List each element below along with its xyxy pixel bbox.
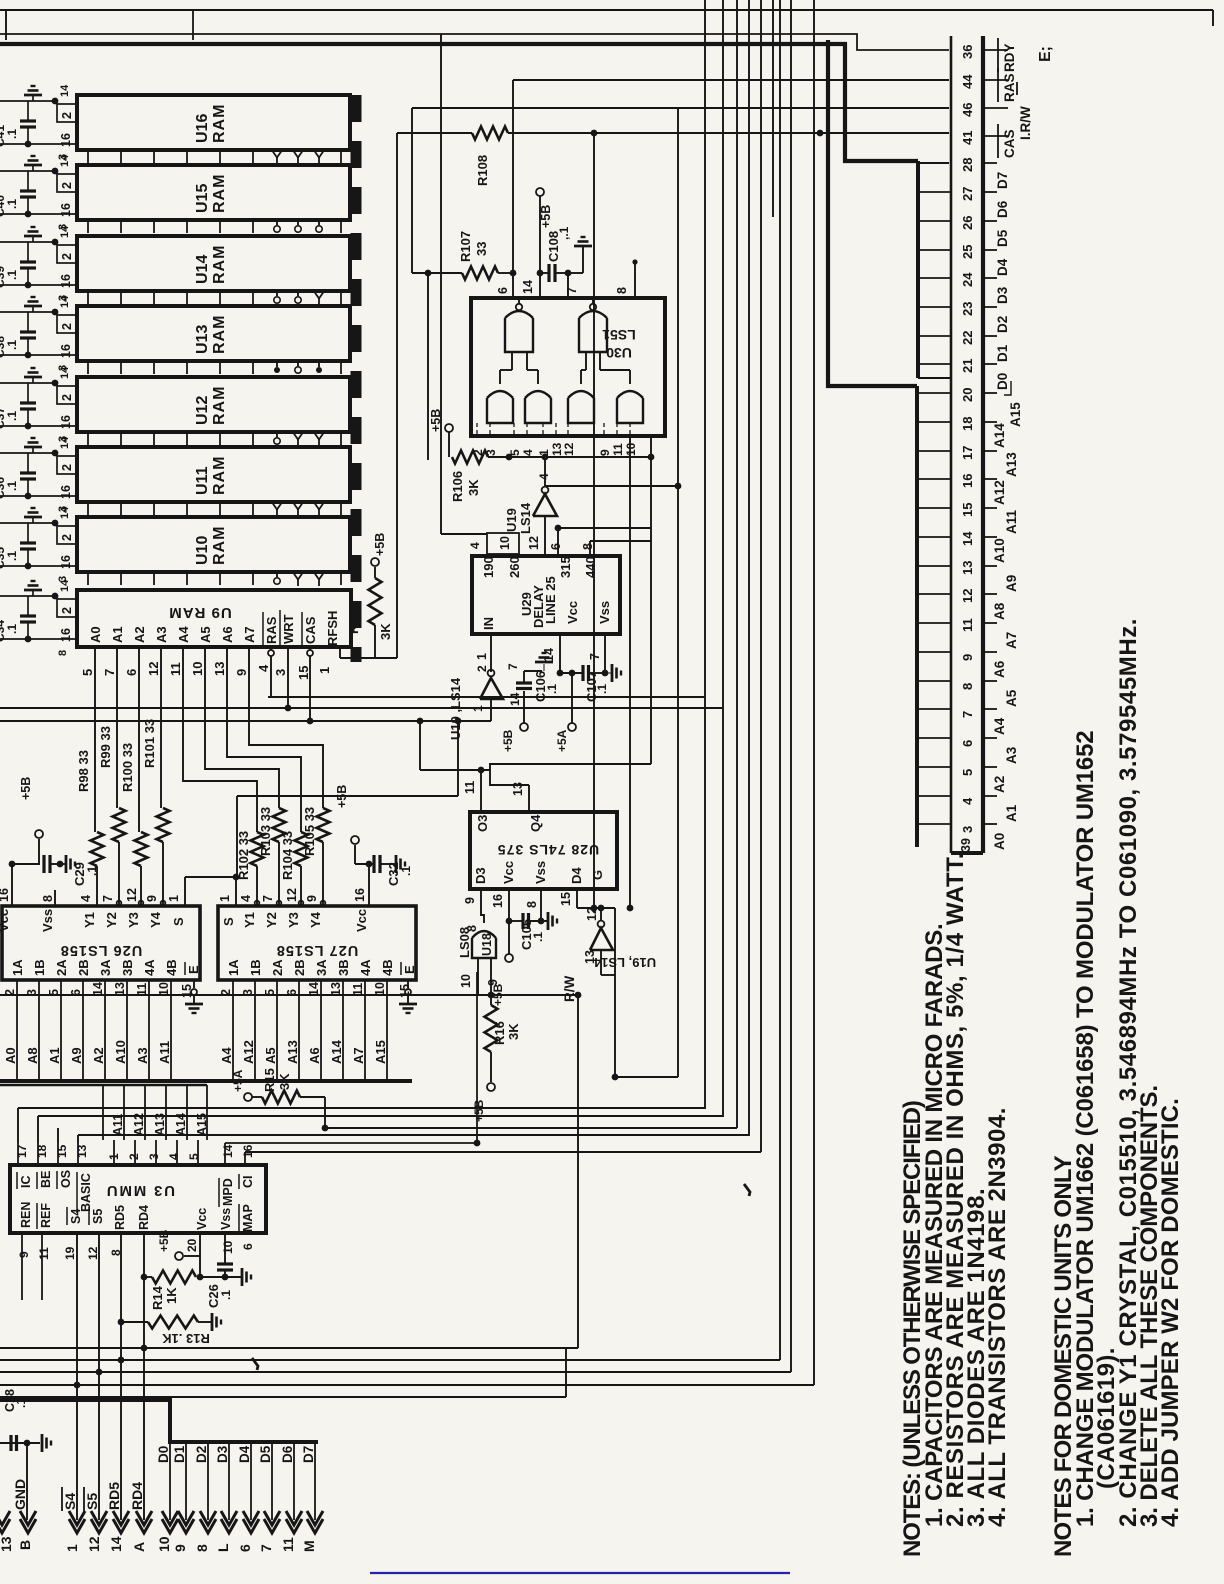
svg-text:3B: 3B	[336, 959, 351, 976]
U28 D4 pin 15 wire	[559, 889, 615, 908]
svg-text:14: 14	[59, 579, 71, 592]
svg-text:R108: R108	[475, 155, 490, 186]
connector pin 25 D4	[960, 245, 1010, 276]
svg-text:U16: U16	[194, 114, 211, 143]
svg-text:14: 14	[59, 295, 71, 308]
svg-text:9: 9	[145, 895, 159, 902]
svg-text:11: 11	[463, 781, 477, 794]
wire A13 into bus	[285, 980, 300, 1079]
svg-text:D0: D0	[995, 373, 1010, 390]
connector pin 20 A15	[960, 381, 1023, 427]
wire D-bus thick top	[0, 44, 918, 161]
address bus thick under U26 U27	[0, 1079, 412, 1083]
svg-text:U18: U18	[480, 933, 494, 956]
wire S4 flag	[62, 1233, 78, 1520]
latch U28 74LS375	[470, 812, 617, 889]
svg-text:Vcc: Vcc	[195, 1208, 209, 1230]
wire A12 into bus	[241, 980, 256, 1079]
U30 AND gate C	[568, 352, 594, 423]
note text: 1. CHANGE MODULATOR UM1662	[1072, 731, 1099, 1527]
svg-text:LS08: LS08	[457, 927, 472, 958]
svg-text:11: 11	[135, 983, 149, 996]
svg-text:10: 10	[156, 1536, 172, 1552]
svg-text:14: 14	[59, 225, 71, 238]
svg-text:2: 2	[127, 1153, 141, 1160]
U29 pin 12 wire	[527, 522, 545, 556]
svg-text:D3: D3	[995, 286, 1010, 304]
wire RD5 flag	[106, 1233, 122, 1520]
pin ticks under U10	[88, 573, 341, 586]
blue underline artifact	[370, 1572, 790, 1574]
svg-text:8: 8	[194, 1544, 210, 1552]
expansion connector rails	[951, 36, 983, 853]
svg-text:D0: D0	[156, 1446, 171, 1463]
svg-text:16: 16	[59, 344, 73, 358]
svg-text:4: 4	[256, 664, 271, 672]
svg-text:+5A: +5A	[231, 1069, 245, 1092]
capacitor C39 bypass for U14	[0, 225, 77, 301]
svg-text:U10: U10	[194, 536, 211, 565]
svg-text:1B: 1B	[32, 959, 47, 976]
wire S5 long line	[0, 0, 791, 1375]
U28 pin 11 wire O3	[417, 718, 490, 812]
pin ticks under U14	[88, 292, 341, 305]
wire D0 from bus	[156, 1442, 171, 1520]
svg-text:12: 12	[527, 536, 541, 550]
inverter U19 LS14 pin 1-2	[448, 665, 503, 740]
svg-text:440: 440	[583, 556, 598, 578]
svg-text:16: 16	[0, 888, 11, 902]
svg-text:L: L	[215, 1543, 231, 1552]
svg-text:D2: D2	[995, 316, 1010, 333]
RAM U11	[77, 447, 350, 502]
inverter U19 LS14 pin 3-4	[504, 457, 557, 534]
wire A14 into bus	[329, 980, 344, 1079]
connector pin 4 A1	[960, 796, 1019, 822]
svg-text:R98 33: R98 33	[76, 750, 91, 792]
svg-text:14: 14	[960, 531, 975, 546]
svg-text:3: 3	[273, 669, 288, 676]
svg-text:2A: 2A	[54, 959, 69, 976]
connector pin 24 D3	[960, 272, 1010, 304]
svg-text:O3: O3	[475, 815, 490, 832]
note text: (CA061619).	[1093, 1347, 1120, 1489]
bus wire v1	[18, 0, 705, 1143]
svg-text:16: 16	[59, 203, 73, 217]
svg-text:S5: S5	[84, 1493, 100, 1510]
svg-text:Vss: Vss	[219, 1208, 233, 1230]
svg-text:41: 41	[960, 131, 975, 145]
svg-text:R99 33: R99 33	[98, 726, 113, 768]
U29 tap box pin 4 10	[441, 34, 519, 556]
U26 pin numbers bottom	[3, 982, 194, 998]
svg-text:R/W: R/W	[562, 976, 577, 1003]
svg-text:GND: GND	[12, 1479, 28, 1510]
svg-text:Y4: Y4	[148, 911, 163, 928]
wire CAS to latch enable vertical	[591, 133, 598, 911]
RAM U13	[77, 306, 350, 361]
wire U18 pin10 to MPD line	[225, 972, 480, 1146]
wire A3 U9 to R101	[160, 647, 162, 808]
resistor R98 33	[76, 750, 104, 906]
svg-text:7: 7	[588, 653, 602, 660]
svg-text:16: 16	[353, 888, 367, 902]
svg-text:D7: D7	[995, 172, 1010, 189]
U30 pin numbers bottom	[471, 442, 638, 456]
svg-text:1: 1	[475, 653, 489, 660]
svg-text:RAS: RAS	[264, 616, 279, 644]
note text: NOTES FOR DOMESTIC UNITS ONL	[1050, 1155, 1077, 1557]
resistor R15 3K	[231, 1068, 328, 1131]
flag 13 cut at edge	[0, 1511, 14, 1552]
U30 pin14 Vcc wire	[536, 188, 553, 298]
svg-text:LINE 25: LINE 25	[543, 576, 558, 624]
svg-text:2: 2	[60, 323, 74, 330]
svg-text:B: B	[17, 1540, 33, 1550]
wire A0 U9 to R98	[94, 647, 96, 832]
svg-text:D6: D6	[280, 1445, 295, 1463]
connector pin 23 D2	[960, 302, 1010, 333]
svg-text:14: 14	[508, 692, 522, 706]
wire A2 into bus	[91, 980, 106, 1079]
RAM U9	[77, 590, 351, 647]
svg-text:10: 10	[624, 442, 638, 456]
svg-text:7: 7	[506, 663, 520, 670]
svg-text:I.R/W: I.R/W	[1018, 106, 1033, 140]
bus wire v3	[58, 0, 737, 1143]
svg-text:4A: 4A	[142, 959, 157, 976]
note text: 4. ADD JUMPER W2 FOR DOMES	[1157, 1098, 1184, 1527]
svg-text:A3: A3	[154, 626, 169, 643]
svg-text:Y4: Y4	[308, 911, 323, 928]
svg-text:Vss: Vss	[533, 861, 548, 884]
wire A6 staircase to R104	[227, 647, 301, 832]
svg-text:1: 1	[317, 667, 332, 674]
U30 input dashes	[477, 423, 630, 436]
wire D1 from bus	[172, 1442, 187, 1520]
svg-text:27: 27	[960, 187, 975, 201]
capacitor C35 bypass for U10	[0, 506, 77, 582]
wire RAS row	[268, 647, 705, 697]
svg-text:3K: 3K	[466, 479, 481, 496]
svg-text:1: 1	[167, 895, 181, 902]
svg-text:A2: A2	[992, 776, 1007, 793]
svg-text:C38: C38	[0, 336, 7, 358]
svg-text:24: 24	[960, 272, 975, 287]
svg-text:2B: 2B	[76, 959, 91, 976]
svg-text:1: 1	[218, 895, 232, 902]
svg-text:16: 16	[491, 894, 505, 908]
svg-text:21: 21	[960, 359, 975, 373]
svg-text:C40: C40	[0, 195, 7, 217]
svg-text:5: 5	[80, 669, 95, 676]
U29 pin 1 wire	[475, 634, 491, 672]
svg-text:13: 13	[329, 982, 343, 996]
svg-text:11: 11	[611, 443, 625, 456]
svg-text:6: 6	[124, 669, 139, 676]
U30 AND gate D	[600, 352, 643, 423]
wire A10 into bus	[113, 980, 128, 1079]
U27 pin numbers bottom	[219, 982, 412, 998]
svg-text:9: 9	[960, 654, 975, 661]
wire A0 into bus	[3, 980, 18, 1079]
connector pin 11 A7	[960, 618, 1019, 649]
AND gate U18 LS08	[457, 889, 500, 996]
svg-text:11: 11	[960, 618, 975, 632]
svg-text:14: 14	[59, 506, 71, 519]
wire A7 into bus	[351, 980, 366, 1079]
multiplexer U27 internal top labels	[221, 909, 369, 932]
svg-text:D4: D4	[995, 258, 1010, 276]
connector pin 14 A10	[960, 531, 1007, 563]
U27 E ground	[399, 980, 417, 1013]
svg-text:RD5: RD5	[113, 1205, 127, 1230]
svg-text:D3: D3	[215, 1445, 230, 1463]
svg-text:8: 8	[960, 683, 975, 690]
wire spare long line	[0, 1348, 566, 1397]
svg-text:A0: A0	[3, 1047, 18, 1064]
svg-text:2: 2	[60, 112, 74, 119]
svg-text:R101 33: R101 33	[142, 719, 157, 768]
svg-text:12: 12	[86, 1536, 102, 1552]
scan mark 2	[252, 1358, 258, 1370]
svg-text:10: 10	[221, 1240, 235, 1254]
wire U30 to U29 pin8 vertical	[545, 436, 681, 764]
svg-text:A5: A5	[1004, 689, 1019, 707]
svg-text:A2: A2	[91, 1047, 106, 1064]
pin ticks under U13	[88, 362, 341, 374]
RAM U16	[77, 95, 350, 150]
svg-text:2: 2	[60, 253, 74, 260]
connector pin 41 CAS	[960, 124, 1017, 158]
connector A section ladder	[828, 40, 951, 847]
svg-text:22: 22	[960, 331, 975, 345]
A11-A15 ladder above MMU	[0, 1085, 209, 1165]
svg-text:LS14: LS14	[518, 502, 533, 534]
svg-text:U15: U15	[194, 184, 211, 213]
svg-text:33: 33	[474, 242, 489, 256]
svg-text:9: 9	[463, 897, 477, 904]
svg-text:U13: U13	[194, 325, 211, 354]
pin ticks under U15	[88, 221, 341, 233]
svg-text:CI: CI	[241, 1176, 255, 1189]
svg-text:11: 11	[351, 983, 365, 996]
svg-text:3B: 3B	[120, 959, 135, 976]
svg-text:12: 12	[125, 888, 139, 902]
svg-text:16: 16	[960, 474, 975, 488]
svg-text:7: 7	[102, 669, 117, 676]
wire RD5 long line	[0, 0, 780, 1363]
svg-text:.1: .1	[399, 866, 413, 876]
svg-text:,.1: ,.1	[557, 226, 571, 240]
svg-text:17: 17	[960, 446, 975, 460]
svg-text:1A: 1A	[226, 959, 241, 976]
wire pin46 IRW	[412, 108, 949, 273]
svg-text:14: 14	[307, 982, 321, 996]
svg-text:7: 7	[261, 895, 275, 902]
svg-text:11: 11	[37, 1247, 51, 1260]
svg-text:RAM: RAM	[211, 386, 228, 425]
svg-text:25: 25	[960, 245, 975, 259]
svg-text:4B: 4B	[380, 959, 395, 976]
svg-text:A7: A7	[1004, 632, 1019, 649]
svg-text:A7: A7	[242, 626, 257, 643]
svg-text:4: 4	[537, 473, 551, 480]
svg-text:RAM: RAM	[211, 315, 228, 354]
flag M D7	[301, 1511, 323, 1552]
U27 pin numbers top	[218, 888, 367, 905]
wire D3 from bus	[215, 1442, 230, 1520]
svg-text:16: 16	[59, 274, 73, 288]
svg-text:8: 8	[525, 901, 539, 908]
scan mark 1	[744, 1184, 750, 1196]
svg-text:13: 13	[212, 662, 227, 676]
svg-text:A10: A10	[992, 538, 1007, 563]
bus wire v5 MPD	[245, 0, 761, 1152]
svg-text:Vss: Vss	[597, 601, 612, 624]
svg-text:36: 36	[960, 45, 975, 59]
svg-text:7: 7	[258, 1544, 274, 1552]
connector pin 18 A14	[960, 417, 1007, 448]
connector pin 17 A13	[960, 446, 1019, 477]
svg-text:.1: .1	[5, 411, 19, 421]
svg-text:RAM: RAM	[211, 526, 228, 565]
wire to IRW vertical	[612, 108, 678, 1080]
svg-text:+5B: +5B	[373, 533, 387, 556]
MMU top control stubs	[18, 1143, 245, 1165]
svg-text:6: 6	[496, 287, 510, 294]
capacitor C41 bypass for U16	[0, 84, 77, 160]
svg-text:REN: REN	[19, 1202, 33, 1228]
connector pin 36 RDY	[960, 38, 1017, 72]
connector pin 22 D1	[960, 331, 1010, 362]
svg-text:D4: D4	[237, 1445, 252, 1463]
note text: 4. ALL TRANSISTORS ARE 2N3	[984, 1107, 1011, 1527]
svg-text:16: 16	[59, 485, 73, 499]
svg-text:A11: A11	[111, 1114, 125, 1136]
svg-text:4: 4	[521, 449, 535, 456]
svg-text:9: 9	[17, 1251, 31, 1258]
svg-text:+5B: +5B	[157, 1229, 171, 1252]
svg-text:RAM: RAM	[211, 174, 228, 213]
svg-text:R107: R107	[458, 231, 473, 262]
svg-text:2: 2	[60, 607, 74, 614]
wire A9 into bus	[69, 980, 84, 1079]
svg-text:A15: A15	[1008, 402, 1023, 427]
wire pin28 D7	[918, 162, 949, 164]
svg-text:CAS: CAS	[1002, 129, 1017, 158]
svg-text:+5B: +5B	[19, 777, 33, 800]
U29 Vss pin 7 wire	[588, 634, 608, 676]
svg-text:E: E	[186, 965, 201, 974]
wire S4 long line	[0, 0, 814, 1388]
connector pin 15 A11	[960, 503, 1019, 534]
page border line	[0, 10, 1213, 40]
svg-text:16: 16	[59, 628, 73, 642]
U30 pin6 wire	[510, 80, 517, 298]
svg-text:2: 2	[475, 665, 489, 672]
svg-text:S5: S5	[91, 1209, 105, 1224]
svg-text:10: 10	[498, 536, 512, 550]
svg-text:S4: S4	[69, 1209, 83, 1224]
capacitor C29 .1	[9, 777, 99, 906]
wire A1 U9 to R99	[116, 647, 118, 808]
svg-text:23: 23	[960, 302, 975, 316]
resistor R104 33	[280, 831, 308, 906]
svg-text:A14: A14	[992, 423, 1007, 448]
svg-text:.1: .1	[5, 340, 19, 350]
connector D section ladder	[918, 161, 951, 378]
wire A6 into bus	[307, 980, 322, 1079]
svg-text:260: 260	[507, 556, 522, 578]
wire A5 into bus	[263, 980, 278, 1079]
wire A5 staircase to R103	[205, 647, 279, 808]
svg-text:3A: 3A	[98, 959, 113, 976]
svg-text:.1: .1	[531, 932, 545, 942]
bus wire v6 CI	[772, 0, 774, 217]
bus wire v4	[78, 0, 749, 1143]
svg-text:R16: R16	[492, 1021, 507, 1045]
svg-text:28: 28	[960, 158, 975, 172]
flag 6 D4	[237, 1511, 259, 1552]
wire A7 staircase to R105	[249, 647, 323, 808]
resistor R103 33	[258, 807, 286, 906]
svg-text:7: 7	[101, 895, 115, 902]
svg-text:4: 4	[960, 797, 975, 805]
svg-text:A1: A1	[47, 1047, 62, 1064]
U26 E ground	[185, 980, 203, 1013]
wire A4 staircase to R102	[183, 647, 257, 832]
wire U30 pin10 down	[627, 436, 634, 911]
svg-text:RD5: RD5	[106, 1482, 122, 1510]
U30 AND gate B	[525, 352, 551, 423]
wire A15 into bus	[373, 980, 388, 1079]
svg-text:26: 26	[960, 216, 975, 230]
RAM U15	[77, 165, 350, 220]
pin ticks under U16	[88, 151, 341, 164]
svg-text:16: 16	[59, 415, 73, 429]
wire A8 into bus	[25, 980, 40, 1079]
capacitor C32 .1	[335, 785, 413, 906]
connector pin 28 D7	[960, 158, 1010, 189]
svg-text:4: 4	[239, 895, 253, 902]
svg-text:6: 6	[241, 1243, 255, 1250]
svg-text:.1: .1	[5, 481, 19, 491]
resistor R16 3K	[472, 992, 521, 1122]
wire D2 from bus	[194, 1442, 209, 1520]
svg-text:6: 6	[237, 1544, 253, 1552]
svg-text:C34: C34	[0, 620, 7, 642]
svg-text:IN: IN	[481, 617, 496, 630]
svg-text:4: 4	[167, 1153, 181, 1160]
svg-text:E: E	[402, 965, 417, 974]
svg-text:RAS: RAS	[1002, 73, 1017, 102]
svg-text:3: 3	[960, 826, 975, 833]
svg-text:19: 19	[63, 1246, 77, 1260]
svg-text:U11: U11	[194, 466, 211, 495]
svg-text:A11: A11	[1004, 509, 1019, 534]
svg-text:Y3: Y3	[126, 912, 141, 928]
svg-text:46: 46	[960, 103, 975, 117]
svg-text:A4: A4	[176, 626, 191, 643]
wire D7 from bus	[301, 1442, 316, 1520]
svg-text:Q4: Q4	[528, 814, 543, 832]
data bus thick to D flags	[0, 1400, 318, 1442]
svg-text:A3: A3	[1004, 746, 1019, 764]
wire RDY bus top	[0, 34, 949, 50]
svg-text:16: 16	[59, 555, 73, 569]
multiplexer U26 LS158	[2, 906, 201, 980]
